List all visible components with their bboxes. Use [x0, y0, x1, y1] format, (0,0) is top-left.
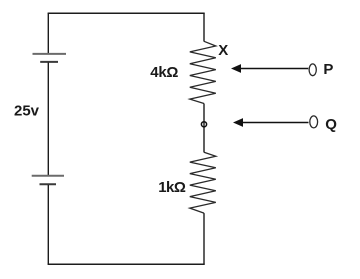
wire right upper — [203, 13, 205, 41]
wire top — [48, 12, 205, 14]
arrow Q shaft — [242, 122, 309, 124]
wire left middle — [47, 63, 49, 176]
battery B2 short plate — [40, 183, 57, 185]
svg-text:4kΩ: 4kΩ — [150, 64, 178, 81]
svg-text:X: X — [218, 42, 228, 59]
svg-text:1kΩ: 1kΩ — [158, 179, 186, 196]
svg-text:25v: 25v — [14, 103, 40, 120]
svg-text:P: P — [323, 61, 333, 78]
resistor R1 4k zigzag — [190, 41, 216, 103]
battery B1 long plate — [33, 53, 67, 55]
resistor R2 1k zigzag — [190, 152, 216, 213]
wire bottom — [48, 263, 205, 265]
wire right middle — [203, 104, 205, 153]
arrow P shaft — [240, 68, 309, 70]
battery B1 short plate — [40, 61, 58, 63]
wire right lower — [203, 213, 205, 264]
arrow Q head — [233, 118, 243, 127]
terminal Q circle — [310, 116, 318, 128]
svg-text:Q: Q — [325, 116, 337, 133]
node junction dot — [201, 122, 206, 127]
battery B2 long plate — [32, 175, 64, 177]
wire left upper — [47, 13, 49, 53]
arrow P head — [231, 64, 241, 73]
terminal P circle — [309, 64, 316, 76]
wire left lower — [47, 185, 49, 264]
